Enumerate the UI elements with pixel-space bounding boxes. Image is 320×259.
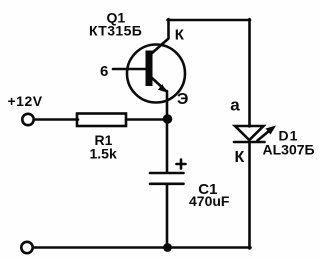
svg-text:К: К — [235, 149, 245, 166]
wire: +12V terminal to R1 — [34, 118, 78, 121]
LED D1 light emission arrow — [258, 126, 277, 141]
wire: base lead — [113, 68, 146, 71]
transistor Q1 emitter lead with arrow — [152, 78, 168, 93]
terminal: return (0V) — [21, 242, 32, 253]
transistor Q1 collector lead — [152, 19, 169, 54]
transistor Q1 body circle — [127, 45, 185, 103]
wire: bottom rail — [34, 246, 251, 249]
wire: top rail from collector to LED branch — [168, 19, 251, 22]
node: bottom junction — [163, 243, 172, 252]
LED D1 cathode bar — [234, 141, 265, 144]
node: junction emitter/R1/C1 — [163, 114, 173, 124]
wire: LED cathode to bottom rail — [248, 142, 251, 249]
svg-text:+12V: +12V — [8, 93, 43, 109]
svg-text:a: a — [230, 96, 240, 115]
wire: R1 to emitter node — [126, 118, 167, 121]
capacitor C1 polarity + — [177, 160, 186, 169]
wire: right branch down to LED anode — [248, 19, 251, 127]
svg-text:470uF: 470uF — [189, 193, 230, 209]
wire: emitter to junction — [166, 91, 169, 119]
LED D1 triangle — [235, 126, 264, 140]
svg-text:AL307Б: AL307Б — [263, 142, 315, 158]
capacitor C1 top plate — [150, 172, 184, 175]
svg-text:КТ315Б: КТ315Б — [89, 23, 142, 39]
wire: capacitor C1 to bottom rail — [166, 185, 169, 248]
svg-text:К: К — [175, 27, 185, 44]
capacitor C1 bottom plate — [150, 183, 184, 186]
svg-text:6: 6 — [100, 63, 108, 80]
transistor Q1 base bar — [146, 51, 153, 87]
svg-text:1.5k: 1.5k — [90, 146, 117, 162]
resistor R1 — [77, 114, 126, 127]
svg-text:Э: Э — [177, 91, 188, 108]
wire: junction to capacitor C1 — [166, 119, 169, 172]
terminal: +12V input — [22, 114, 33, 125]
